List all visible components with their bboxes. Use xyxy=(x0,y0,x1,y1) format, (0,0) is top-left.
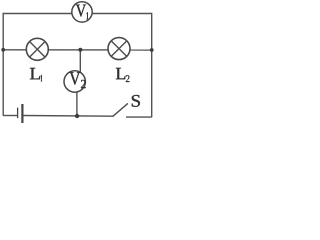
label L1 subscript 1 xyxy=(41,75,42,81)
wire: top side xyxy=(3,13,152,15)
label L2 letter L xyxy=(116,68,125,79)
wire: bottom battery to switch xyxy=(23,115,113,118)
wire: left side vertical xyxy=(2,13,4,116)
battery cell: long thick plate xyxy=(21,104,23,123)
voltmeter V1 circle xyxy=(72,2,92,22)
wire: V2 upper vertical xyxy=(79,50,81,75)
junction dot bottom center xyxy=(75,114,79,118)
voltmeter V1 subscript 1 xyxy=(87,12,89,19)
voltmeter V1 letter V xyxy=(76,5,86,17)
wire: bottom left of battery xyxy=(3,115,17,117)
voltmeter V2 circle xyxy=(64,71,85,92)
label L2 subscript 2 xyxy=(126,75,129,82)
battery cell: short plate xyxy=(17,108,19,119)
voltmeter V2 letter V xyxy=(69,72,80,85)
label L1 letter L xyxy=(30,68,40,79)
lamp L1 cross xyxy=(30,42,46,58)
wire: right side vertical xyxy=(151,13,153,117)
lamp L2 circle xyxy=(108,38,130,60)
lamp L2 cross xyxy=(111,41,127,57)
lamp L1 circle xyxy=(26,38,48,60)
switch label S xyxy=(132,95,140,107)
junction dot rung center xyxy=(78,48,82,52)
junction dot left middle xyxy=(1,48,5,52)
junction dot right middle xyxy=(150,48,154,52)
wire: bottom right of switch xyxy=(126,116,152,118)
switch lever xyxy=(113,104,127,116)
wire: V2 lower vertical xyxy=(76,89,78,116)
wire: middle rung xyxy=(3,49,152,51)
voltmeter V2 subscript 2 xyxy=(81,80,86,88)
